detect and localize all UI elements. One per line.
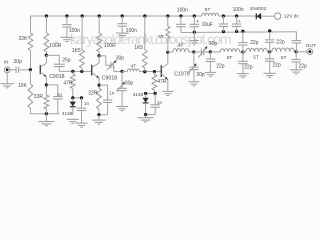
capacitor supply x237 [232,16,241,31]
resistor 100R stage2 [97,16,102,56]
watermark [55,31,231,47]
wire clamp bottom stage3 [146,114,156,116]
wire 22K to input node [30,51,32,70]
label C1970 [174,71,189,77]
node bus x237 [235,30,238,33]
svg-text:100n: 100n [177,7,188,13]
capacitor 22p filter input [206,52,215,72]
svg-text:1n: 1n [57,92,63,97]
svg-text:C1970: C1970 [174,71,189,77]
resistor 10K [28,70,33,114]
svg-text:30p: 30p [116,56,125,62]
label 30p shunt output [196,72,205,78]
wire Q3 collector [167,52,169,64]
label 22p lower3 [299,63,308,69]
capacitor 22p lower2 [265,52,274,73]
node 1K5 tap [80,70,83,73]
ground under shunt trimmer [116,107,128,111]
label 5T rail [205,7,211,13]
node input junction [29,68,32,71]
svg-text:22R: 22R [88,91,98,97]
ground under 4148 stage2 [67,119,79,123]
inductor 4T output [173,49,189,52]
ground lower2 [264,73,276,77]
inductor 5T filter2 [243,48,270,52]
label 1n clamp [84,101,90,106]
capacitor 1n stage1 [53,97,62,99]
label 100R stage2 [104,43,116,49]
svg-text:IN: IN [4,60,9,65]
transistor Q1 C9018 [40,63,46,76]
inductor 5T filter3 [270,48,297,52]
label 1n stage1 [57,92,63,97]
wire Q2 collector to trimmer [99,56,111,66]
node rail-22K corner [30,16,32,33]
svg-text:4T: 4T [131,64,137,70]
label 22p upper1 [250,40,259,46]
svg-text:100R: 100R [49,43,61,49]
svg-text:5T: 5T [281,55,287,61]
node filter node3 [295,50,298,53]
label 10K [18,83,28,89]
label 5T filter2 [253,55,259,61]
trimmer capacitor 30p series stage2 [107,60,117,71]
label C9018 Q2 [102,76,117,82]
label 25p [62,58,71,64]
label 5T filter3 [281,55,287,61]
node filter input [209,50,212,53]
wire emitter to 1n stage2 [99,85,108,100]
label 22p lower2 [272,63,281,69]
trimmer capacitor 30p shunt output [188,52,198,82]
svg-text:20p: 20p [14,59,23,65]
node rail junction x122 [121,14,124,17]
node bus 10uF [193,30,196,33]
label IN [4,60,9,65]
label 4148 stage3 [133,92,144,98]
node Q1 emitter junction [45,83,48,86]
svg-text:5T: 5T [253,55,259,61]
inductor 5T rail [202,13,219,16]
label 4T output [178,42,184,48]
ground lower3 [290,70,302,74]
resistor 22R [97,88,102,115]
ground under output trimmer [189,82,200,86]
svg-text:1n: 1n [84,101,90,106]
ground under IN [0,73,14,88]
svg-text:100n: 100n [233,7,244,13]
svg-text:karyasolderanku.blogspot.com: karyasolderanku.blogspot.com [70,31,231,47]
label 100R [49,43,61,49]
node 22R bottom [97,113,100,116]
wire to shunt trimmer [189,51,194,53]
label plus 10uF [197,20,199,22]
svg-text:22p: 22p [299,63,308,69]
node rail junction x223 [222,14,225,17]
ground stage1 [38,114,54,126]
node Q1 collector [45,54,48,57]
label 30p shunt stage2 [125,80,134,86]
node Q3 collector [166,50,169,53]
capacitor 22p lower1 [238,52,247,74]
wire 1n stage2 bottom [99,103,108,115]
node cap stage3 tap [154,92,157,95]
label 4148 stage2 [62,111,73,117]
node 47R tap [71,70,74,73]
wire Q1 collector node [46,54,59,56]
svg-text:C9018: C9018 [49,74,64,80]
node diode tap [71,96,74,99]
node rail junction x99 [98,14,101,17]
wire 1n to bottom [58,99,59,114]
wire 20p to base node [19,69,31,71]
node interstage [120,70,123,73]
wire collector line [168,51,173,53]
capacitor supply x223 [219,16,228,32]
label 22p filter input [216,64,225,70]
svg-text:30p: 30p [125,80,134,86]
ground filter input [205,72,216,76]
resistor 33R [44,95,49,114]
svg-text:1n: 1n [109,90,115,95]
resistor 1K5 stage2 [80,16,85,71]
svg-text:4T: 4T [178,42,184,48]
svg-text:47R: 47R [157,79,167,85]
label 22K [19,36,29,42]
transistor Q3 C1970 [161,64,168,80]
label 20p [14,59,23,65]
ground Q3 emitter [162,91,174,95]
resistor 1K5 stage3 [142,16,147,72]
wire bias clamp stage3 [146,93,156,95]
wire IN to C-20p [10,69,16,71]
label 1n stage3 [157,100,163,105]
label 1N4002 [250,6,267,12]
wire Q2 collector [98,56,100,63]
node rail junction x145 [143,14,146,17]
node shunt trimmer output [192,50,195,53]
resistor 22K [28,33,33,51]
node bus node2 [268,29,271,32]
svg-text:22p: 22p [250,40,259,46]
capacitor 22p upper1 [238,31,247,52]
ground clamp stage3 [138,115,154,122]
diode 1N4148 stage2 [70,98,76,115]
svg-text:33R: 33R [34,94,44,100]
ground under 100n first [61,37,74,41]
svg-text:4148: 4148 [62,111,73,117]
label 4T interstage [131,64,137,70]
svg-text:OUT: OUT [306,43,316,49]
label 47R stage2 [63,80,73,86]
resistor 47R stage2 [70,71,75,98]
resistor 47R stage3 [152,72,157,94]
svg-text:4148: 4148 [133,92,144,98]
node bus x223 [222,30,225,33]
label OUT [306,43,316,49]
label 22p upper2 [276,39,285,45]
label 100n third [177,7,188,13]
svg-text:47R: 47R [63,80,73,86]
capacitor 100n first [62,16,71,37]
svg-text:10uF: 10uF [202,22,213,28]
svg-text:1K5: 1K5 [72,48,81,54]
label 22R [88,91,98,97]
diode 1N4148 stage3 [143,94,149,115]
label 1K5 stage3 [134,45,143,51]
svg-text:25p: 25p [62,58,71,64]
diode 1N4002 [256,13,274,20]
label 30p series output [209,41,218,47]
svg-text:22K: 22K [19,36,29,42]
svg-text:5T: 5T [227,55,233,61]
capacitor 10uF [190,16,199,32]
node clamp cap tap [80,96,83,99]
label 12V dc [284,14,300,20]
inductor 4T interstage [122,69,161,72]
node Q2 emitter junction [97,83,100,86]
trimmer capacitor 30p series output [194,46,211,57]
svg-text:100n: 100n [69,28,80,34]
label 5T choke [158,34,164,40]
wire to OUT [296,51,307,53]
svg-text:30p: 30p [196,72,205,78]
svg-text:30p: 30p [209,41,218,47]
svg-text:5T: 5T [205,7,211,13]
ground under 100n second [116,33,129,37]
inductor 5T filter1 [210,49,243,52]
capacitor 1n stage3 [151,94,160,115]
capacitor 22p upper2 [265,32,274,52]
label 22p lower1 [244,65,253,71]
node clamp ground [144,113,147,116]
node filter node1 [241,50,244,53]
label 100n second [126,28,137,34]
svg-text:5T: 5T [158,34,164,40]
wire stage2 base [59,70,91,72]
capacitor 20p [16,67,19,73]
ground under clamp cap [76,123,88,127]
label 5T filter1 [227,55,233,61]
wire stage1 bottom [30,113,59,115]
node 47R stage3 tap [153,70,156,73]
node rail junction x82 [81,14,84,17]
wire Q3 emitter [167,80,169,92]
svg-text:1N4002: 1N4002 [250,6,267,12]
label 30p series stage2 [116,56,125,62]
resistor 100R [44,16,49,55]
label 1K5 stage2 [72,48,81,54]
terminal OUT [307,49,313,55]
wire emitter to 1n [46,85,57,97]
wire trimmer to node [114,70,122,72]
node filter node2 [268,50,271,53]
wire bias clamp stage2 [73,97,82,99]
wire Q1 emitter [45,77,47,95]
trimmer capacitor 30p shunt stage2 [116,71,127,106]
svg-text:10K: 10K [18,83,28,89]
svg-text:100R: 100R [104,43,116,49]
svg-text:22p: 22p [272,63,281,69]
svg-text:12V dc: 12V dc [284,14,300,20]
terminal IN [4,67,10,73]
label 47R stage3 [157,79,167,85]
capacitor 100n third [176,16,185,32]
node rail junction x168 [166,14,169,17]
label 33R [34,94,44,100]
wire Vcc top rail [31,15,257,17]
transistor Q2 C9018 [92,63,99,78]
svg-text:1K5: 1K5 [134,45,143,51]
label 10uF [202,22,213,28]
node diode stage3 tap [144,92,147,95]
capacitor 1n clamp [77,98,86,123]
svg-text:22p: 22p [216,64,225,70]
node rail junction x237 [235,14,238,17]
ground under 22R [92,115,105,124]
wire ground bus [181,31,297,34]
node rail junction x194 [193,14,196,17]
capacitor 22p lower3 [292,52,301,70]
wire Q2 emitter [98,78,100,88]
svg-text:22p: 22p [244,65,253,71]
capacitor 25p coupling [54,55,65,71]
node 1K5 stage3 tap [143,70,146,73]
ground bus ground [190,32,199,45]
label C9018 Q1 [49,74,64,80]
label plus x237 [238,20,240,22]
ground lower1 [237,74,249,78]
label 100n first [69,28,80,34]
capacitor 22p upper3 [292,32,301,52]
label 100n fourth [233,7,244,13]
capacitor 1n stage2 [103,100,112,102]
node rail junction x181 [179,14,182,17]
capacitor 100n second [118,16,127,33]
node rail junction x67 [65,14,68,17]
inductor 5T choke [166,16,170,52]
svg-text:C9018: C9018 [102,76,117,82]
wire Q1 collector [45,55,47,63]
label 1n stage2 [109,90,115,95]
node stage1 bottom junction [45,112,48,115]
node bus node1 [241,30,244,33]
svg-text:1n: 1n [157,100,163,105]
node rail junction x46 [45,14,48,17]
node Q2 collector [97,54,100,57]
terminal 12V [275,13,281,19]
svg-text:22p: 22p [276,39,285,45]
